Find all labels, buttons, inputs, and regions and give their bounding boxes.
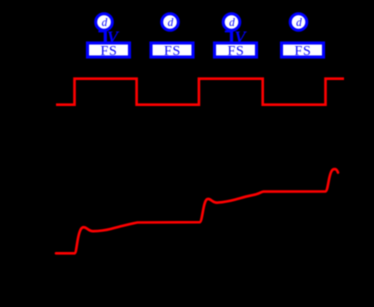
svg-text:FS: FS bbox=[164, 44, 181, 59]
svg-text:V: V bbox=[107, 28, 120, 47]
arrow shaft 1 (circle d1 to FS box 1) bbox=[104, 31, 107, 43]
circle d3 bbox=[223, 14, 240, 31]
arrow serif bar 1 bbox=[98, 30, 104, 32]
svg-text:d: d bbox=[168, 17, 174, 29]
circle d2 bbox=[162, 14, 179, 31]
arrow shaft 3 (circle d3 to FS box 3) bbox=[230, 31, 233, 43]
FS box 1 bbox=[88, 43, 130, 59]
FS box 2 bbox=[151, 43, 193, 59]
circle d4 bbox=[290, 14, 307, 31]
output staircase curve bbox=[56, 169, 338, 253]
FS box 4 bbox=[282, 43, 324, 59]
FS box 3 bbox=[215, 43, 257, 59]
circle d1 bbox=[96, 14, 113, 31]
arrow serif bar 3 bbox=[225, 30, 231, 32]
svg-text:d: d bbox=[296, 17, 302, 29]
clock square wave bbox=[56, 79, 344, 105]
svg-text:FS: FS bbox=[295, 44, 312, 59]
svg-text:V: V bbox=[234, 28, 247, 47]
